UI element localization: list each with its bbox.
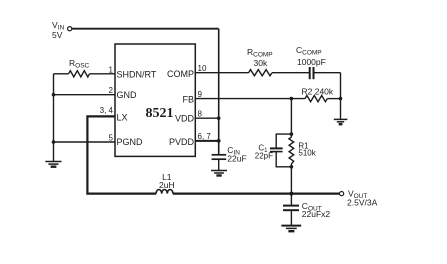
label VOUT 2.5V/3A: [347, 189, 378, 208]
wire pin10 COMP: [195, 72, 248, 74]
svg-text:8521: 8521: [146, 106, 174, 121]
terminal VIN: [68, 27, 72, 31]
wire VIN vertical to VDD/PVDD: [218, 29, 220, 154]
wire FB divider vertical: [290, 99, 292, 138]
svg-text:2.5V/3A: 2.5V/3A: [347, 198, 378, 208]
resistor Rosc: [69, 71, 90, 77]
svg-text:1: 1: [109, 66, 114, 75]
label COUT 22uFx2: [302, 201, 331, 219]
wire pin9 FB: [195, 98, 305, 100]
ground COUT: [281, 226, 301, 232]
capacitor COUT: [283, 205, 299, 207]
svg-text:2: 2: [109, 86, 114, 95]
ground left: [45, 162, 61, 167]
label CCOMP 1000pF: [296, 45, 326, 67]
svg-text:FB: FB: [182, 94, 194, 104]
label VIN 5V: [52, 20, 64, 40]
wire pin6,7 PVDD: [195, 140, 218, 142]
wire left vertical (Rosc/GND/PGND): [53, 74, 55, 161]
wire CCOMP right lead: [314, 72, 341, 74]
ground COMP network: [334, 119, 348, 124]
wire inductor to VOUT: [173, 193, 340, 195]
node VDD junction: [217, 116, 221, 120]
svg-text:PGND: PGND: [117, 137, 144, 147]
svg-text:22pF: 22pF: [255, 151, 273, 160]
resistor R1: [289, 137, 294, 164]
svg-text:10: 10: [198, 64, 207, 73]
svg-text:COMP: COMP: [167, 69, 194, 79]
node PVDD junction: [217, 139, 221, 143]
wire output node to COUT: [290, 194, 292, 206]
svg-text:9: 9: [198, 90, 203, 99]
wire CCOMP down to R2/ground: [340, 73, 342, 119]
inductor L1: [156, 190, 173, 194]
label RCOMP 30k: [247, 47, 273, 68]
node R2 right junction: [339, 97, 343, 101]
wire R2 right lead: [327, 98, 340, 100]
node PGND junction: [52, 140, 56, 144]
svg-text:5V: 5V: [52, 30, 63, 40]
pin number labels: [100, 64, 212, 142]
svg-text:PVDD: PVDD: [169, 137, 195, 147]
svg-text:LX: LX: [117, 113, 128, 123]
wire R1 to output node: [290, 164, 292, 194]
svg-text:1000pF: 1000pF: [297, 57, 326, 67]
svg-text:510k: 510k: [298, 149, 316, 158]
IC pin names: [117, 69, 195, 147]
wire pin8 VDD: [195, 117, 218, 119]
label C1 22pF: [255, 144, 273, 161]
svg-text:6, 7: 6, 7: [198, 132, 212, 141]
wire VIN top: [72, 28, 219, 30]
wire RCOMP to CCOMP: [272, 72, 310, 74]
svg-text:8: 8: [198, 110, 203, 119]
node R1 bottom junction: [290, 165, 294, 169]
node GND junction: [52, 93, 56, 97]
wire COUT to ground: [290, 210, 292, 225]
node VOUT junction: [289, 192, 293, 196]
svg-text:22uFx2: 22uFx2: [302, 209, 331, 219]
svg-text:30k: 30k: [254, 58, 268, 68]
capacitor CCOMP: [309, 67, 311, 79]
IC U1 8521 body: [115, 44, 195, 156]
wire LX to inductor (power path): [87, 116, 156, 193]
wire C1 branch bottom: [276, 152, 291, 167]
label R1 510k: [298, 141, 316, 157]
node R1 top junction: [290, 132, 294, 136]
label L1 2uH: [159, 172, 175, 190]
svg-text:GND: GND: [117, 90, 138, 100]
svg-text:SHDN/RT: SHDN/RT: [117, 70, 157, 80]
terminal VOUT: [340, 192, 344, 196]
svg-text:R2 240k: R2 240k: [302, 87, 334, 97]
capacitor CIN: [212, 154, 227, 156]
svg-text:3, 4: 3, 4: [100, 106, 114, 115]
svg-text:VDD: VDD: [175, 114, 195, 124]
resistor R2: [305, 96, 327, 102]
ground CIN: [211, 171, 227, 176]
wire C1 branch top: [276, 134, 291, 148]
wire Rosc to pin1 SHDN/RT: [90, 73, 116, 75]
wire CIN to ground: [218, 159, 220, 170]
svg-text:5: 5: [109, 133, 114, 142]
wire pin2 GND: [54, 94, 116, 96]
svg-text:2uH: 2uH: [159, 180, 175, 190]
wire pin5 PGND: [54, 141, 116, 143]
resistor RCOMP: [249, 70, 272, 76]
capacitor C1: [270, 147, 283, 149]
node FB junction: [290, 97, 294, 101]
wire pin1 SHDN/RT: [54, 73, 69, 75]
label CIN 22uF: [227, 145, 246, 164]
svg-text:22uF: 22uF: [227, 154, 246, 164]
